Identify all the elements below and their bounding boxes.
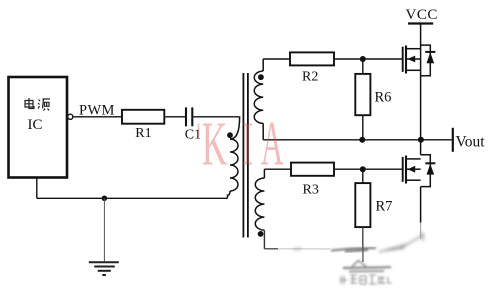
transistor Q1 (top MOSFET) [403, 46, 421, 74]
svg-text:IC: IC [28, 117, 43, 133]
power IC box U1 (电源 IC) [9, 77, 68, 178]
svg-text:R2: R2 [302, 70, 318, 85]
resistor R6 [362, 59, 364, 74]
svg-text:R1: R1 [135, 126, 151, 141]
svg-text:A: A [261, 109, 284, 179]
wire VCC rail [420, 24, 422, 140]
node junction on ground wire [102, 196, 108, 202]
node junction R6 bottom [359, 137, 365, 143]
node junction R2/R6 [360, 56, 366, 62]
transformer T1 primary winding [230, 116, 240, 139]
wire Q2 source rail down [420, 187, 422, 223]
resistor R3 [291, 163, 334, 176]
svg-text:I: I [242, 110, 254, 179]
label 电源 (hand-drawn glyphs) [25, 98, 50, 111]
svg-text:VCC: VCC [406, 7, 438, 23]
VCC terminal bar [408, 22, 433, 24]
wire Q2 drain rail from Vout node [420, 140, 422, 155]
wire smudge cluster near ground G2 [331, 248, 376, 252]
svg-text:Vout: Vout [456, 133, 486, 150]
wire secondary bottom to R3 [264, 168, 291, 170]
primary phase dot [227, 132, 233, 138]
wire primary bottom to IC ground [37, 197, 228, 199]
resistor R7 [362, 169, 364, 183]
body diode D2 [421, 155, 431, 187]
watermark text smudge row under ground G2 [341, 275, 392, 284]
resistor R2 [290, 52, 334, 65]
secondary bottom phase dot [258, 231, 264, 237]
node junction source/drain rail [418, 137, 424, 143]
ground G2 lead [362, 244, 364, 262]
transformer T1 secondary winding bottom [263, 169, 265, 178]
secondary top phase dot [258, 74, 264, 80]
wire R2 to gate Q1 [334, 58, 403, 60]
terminal Vout bar [452, 128, 454, 152]
wire secondary top to R2 [263, 58, 290, 60]
watermark stray tick [198, 124, 200, 137]
node junction R3/R7 [360, 166, 366, 172]
transformer T1 secondary winding top [262, 59, 264, 71]
PWM output terminal circle [68, 114, 73, 119]
body diode D1 [421, 45, 431, 76]
wire R1 to C1 [164, 116, 185, 118]
svg-text:R6: R6 [375, 90, 392, 106]
wire C1 to transformer primary [193, 116, 239, 118]
resistor R1 [122, 110, 164, 124]
svg-text:PWM: PWM [79, 102, 115, 118]
watermark smudge strokes right side [294, 232, 424, 252]
wire bottom return line (faded segments) [264, 248, 278, 250]
wire Vout node line [263, 139, 452, 141]
capacitor C1 [185, 107, 187, 126]
wire R3 to gate Q2 [334, 168, 403, 170]
svg-text:K: K [202, 110, 228, 179]
ground G2 (blurred) [343, 261, 391, 272]
wire PWM to R1 [73, 116, 122, 118]
transistor Q2 (bottom MOSFET) [403, 156, 421, 184]
ground G1 lead [103, 198, 105, 261]
ground G1 [89, 262, 119, 275]
svg-text:R7: R7 [376, 199, 393, 215]
transformer T1 core [242, 73, 244, 238]
svg-text:R3: R3 [303, 183, 319, 198]
